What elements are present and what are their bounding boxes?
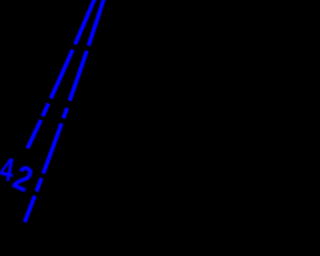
- contour line left core (dashed): [28, 0, 97, 148]
- contour line right core (dashed): [25, 0, 106, 222]
- contour line right halo (dashed): [25, 0, 106, 222]
- contour line left halo (dashed): [28, 0, 97, 148]
